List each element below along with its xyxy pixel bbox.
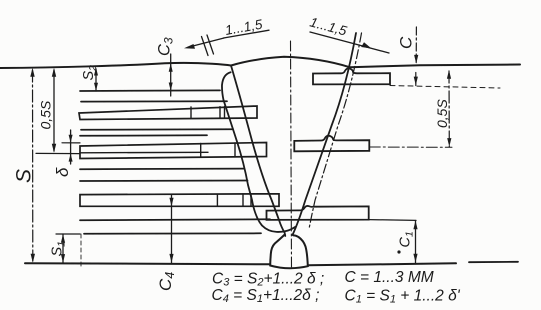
svg-text:C = 1...3 MM: C = 1...3 MM — [345, 269, 434, 286]
svg-text:C3 = S2+1...2 δ ;: C3 = S2+1...2 δ ; — [212, 271, 324, 289]
svg-text:δ: δ — [53, 167, 72, 177]
svg-text:0,5S: 0,5S — [38, 100, 54, 129]
svg-text:S: S — [13, 169, 36, 183]
svg-text:C: C — [397, 36, 416, 49]
svg-text:0,5S: 0,5S — [434, 99, 450, 128]
svg-text:C1 = S1 + 1...2 δ': C1 = S1 + 1...2 δ' — [345, 288, 461, 306]
